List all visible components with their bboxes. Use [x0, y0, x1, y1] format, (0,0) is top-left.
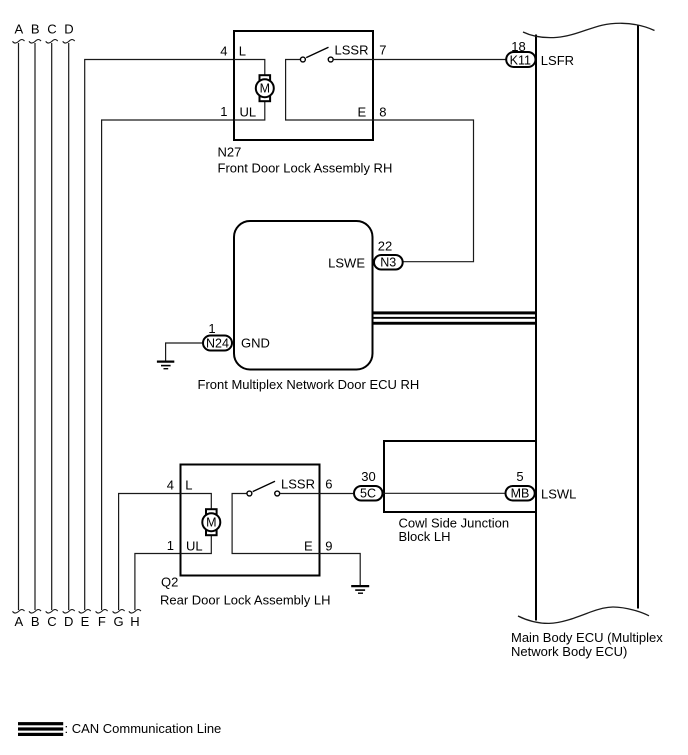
wire C — [51, 43, 53, 610]
svg-text:Front Door Lock Assembly RH: Front Door Lock Assembly RH — [218, 161, 393, 176]
wire A — [18, 43, 20, 610]
svg-text:G: G — [114, 614, 124, 629]
switch LSSR (N27) — [300, 47, 333, 62]
svg-text:B: B — [31, 614, 40, 629]
svg-text:C: C — [47, 22, 56, 37]
svg-text:M: M — [206, 516, 216, 530]
wire Q2 switch loop — [232, 494, 319, 554]
svg-text:8: 8 — [379, 105, 386, 120]
wire pin 9 to ground — [320, 554, 361, 586]
svg-text:K11: K11 — [510, 53, 531, 67]
svg-text:E: E — [81, 614, 90, 629]
svg-text:7: 7 — [379, 43, 386, 58]
svg-text:LSSR: LSSR — [281, 477, 315, 492]
ground (N24) — [157, 362, 174, 369]
svg-text:UL: UL — [240, 105, 257, 120]
wire F : N27 pin 1 to bottom — [102, 120, 234, 610]
svg-text:4: 4 — [167, 478, 174, 493]
svg-text:22: 22 — [378, 239, 392, 254]
connector 5C — [354, 486, 383, 501]
svg-text:N3: N3 — [380, 255, 396, 269]
Main Body ECU right edge — [637, 25, 639, 609]
svg-text:LSWL: LSWL — [541, 487, 576, 502]
svg-text:Main Body ECU (Multiplex: Main Body ECU (Multiplex — [511, 630, 663, 645]
svg-text:H: H — [130, 614, 139, 629]
wire G : Q2 pin 4 to bottom — [119, 494, 181, 611]
wire switch to pin 6 — [280, 493, 320, 495]
motor M (N27) — [256, 75, 274, 101]
svg-text:5C: 5C — [360, 487, 376, 501]
svg-text:9: 9 — [325, 539, 332, 554]
connector N24 — [203, 336, 232, 351]
svg-text:18: 18 — [511, 39, 525, 54]
svg-text:Network Body ECU): Network Body ECU) — [511, 644, 627, 659]
svg-text:1: 1 — [167, 538, 174, 553]
svg-text:LSFR: LSFR — [541, 53, 574, 68]
connector N3 — [374, 255, 403, 270]
svg-text:F: F — [98, 614, 106, 629]
ground (Q2 pin 9) — [351, 586, 369, 593]
svg-text:L: L — [239, 44, 246, 59]
svg-text:MB: MB — [511, 487, 530, 501]
svg-text:L: L — [185, 478, 192, 493]
svg-text:B: B — [31, 22, 40, 37]
Main Body ECU left edge — [535, 35, 537, 621]
wire pin 8 to connector N3 — [373, 120, 474, 262]
svg-text:Q2: Q2 — [161, 575, 178, 590]
svg-text:6: 6 — [325, 477, 332, 492]
svg-text:Block LH: Block LH — [399, 529, 451, 544]
wire pin 6 to connector 5C — [320, 493, 354, 495]
wire Q2 motor loop — [181, 494, 212, 554]
switch LSSR (Q2) — [247, 481, 280, 496]
svg-text:GND: GND — [241, 336, 270, 351]
svg-text:E: E — [304, 539, 313, 554]
wire H : Q2 pin 1 to bottom — [135, 554, 181, 611]
wire pin 7 to connector K11 — [373, 59, 506, 61]
svg-text:A: A — [14, 22, 23, 37]
Main Body ECU torn bottom edge — [518, 607, 649, 623]
svg-text:: CAN Communication Line: : CAN Communication Line — [65, 721, 222, 736]
svg-text:1: 1 — [208, 321, 215, 336]
front door lock assembly N27 box — [234, 31, 373, 140]
svg-text:Front Multiplex Network Door E: Front Multiplex Network Door ECU RH — [198, 377, 420, 392]
svg-text:5: 5 — [516, 469, 523, 484]
Main Body ECU torn top edge — [523, 23, 655, 37]
svg-text:C: C — [47, 614, 56, 629]
svg-text:30: 30 — [361, 469, 375, 484]
svg-text:D: D — [64, 614, 73, 629]
svg-text:LSWE: LSWE — [328, 256, 365, 271]
svg-text:N27: N27 — [218, 145, 242, 160]
wire E : N27 pin 4 to bottom — [85, 60, 234, 611]
wire B — [34, 43, 36, 610]
svg-text:N24: N24 — [206, 336, 229, 350]
svg-text:1: 1 — [220, 104, 227, 119]
svg-text:M: M — [260, 82, 270, 96]
svg-text:E: E — [358, 105, 367, 120]
wire switch to pin 7 — [333, 59, 373, 61]
svg-text:A: A — [14, 614, 23, 629]
svg-text:4: 4 — [220, 44, 227, 59]
Cowl Side Junction Block LH box — [384, 441, 536, 512]
wire N24 to ground — [166, 343, 202, 361]
motor M (Q2) — [202, 509, 220, 535]
legend CAN communication line symbol — [18, 722, 63, 736]
connector K11 — [506, 52, 535, 67]
CAN communication lines (ECU to Main Body ECU) — [374, 311, 537, 324]
svg-text:Rear Door Lock Assembly LH: Rear Door Lock Assembly LH — [160, 593, 331, 608]
wire N27 motor loop — [234, 60, 265, 121]
wire D — [68, 43, 70, 610]
rear door lock assembly Q2 box — [181, 465, 320, 576]
connector MB — [506, 486, 535, 501]
wire N27 switch loop — [286, 60, 373, 121]
wire 5C to connector MB — [383, 492, 505, 494]
svg-text:UL: UL — [186, 539, 203, 554]
svg-text:D: D — [64, 22, 73, 37]
Front Multiplex Network Door ECU RH box — [234, 221, 373, 370]
svg-text:LSSR: LSSR — [335, 43, 369, 58]
